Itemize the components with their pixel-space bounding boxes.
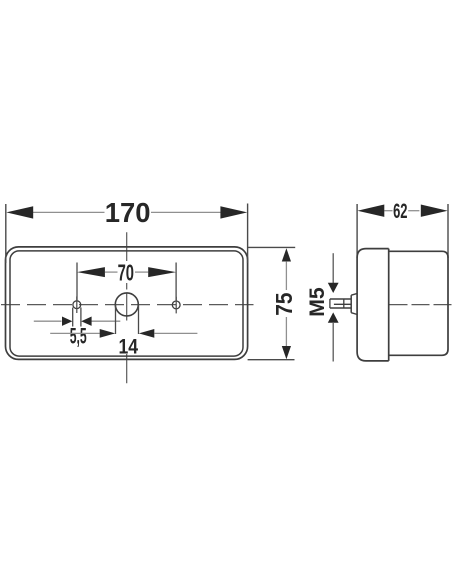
mounting hole left [73,301,81,309]
side view body profile [389,251,448,355]
dim 62 arrows [357,205,384,217]
svg-text:75: 75 [271,292,297,315]
dim 70 arrows [77,267,105,277]
svg-text:14: 14 [119,335,139,359]
dim 5,5 extension lines [72,308,74,327]
dim 170 extension lines [5,204,7,263]
dim M5 arrows [328,283,339,293]
dim 5,5 arrows [62,317,72,326]
dim M5 line [332,253,334,283]
dim 14 label [119,337,139,354]
svg-text:62: 62 [393,199,407,223]
dim 70 label [118,263,136,281]
dim 62 line [384,210,392,212]
dim 75 extension lines [248,246,296,248]
mounting hole right [172,301,180,309]
dim 75 line [285,262,287,290]
dim 14 line [50,332,100,334]
lamp inner outline (front view) [10,251,243,356]
center hole [115,293,138,316]
front view vertical centerline [126,232,128,383]
side view lens profile [357,249,389,361]
dim 14 extension lines [115,305,117,335]
dim 75 arrows [282,248,291,261]
svg-text:70: 70 [118,260,134,286]
front view horizontal centerline [1,304,254,306]
dim 70 line [105,271,119,273]
stud flange [350,295,352,313]
side view centerline [390,304,452,306]
svg-text:M5: M5 [306,287,329,317]
svg-text:5,5: 5,5 [70,324,87,349]
svg-text:170: 170 [105,197,151,228]
lamp outer outline (front view) [6,247,248,360]
M5 stud [330,298,351,300]
dim 14 arrows [100,329,116,338]
dim 5,5 line [34,320,62,322]
dim 70 extension lines [76,263,78,301]
dim 62 extension lines [356,204,358,258]
lens/body junction line [388,249,390,361]
dim 170 line [33,211,105,213]
dim 170 arrows [6,206,33,218]
